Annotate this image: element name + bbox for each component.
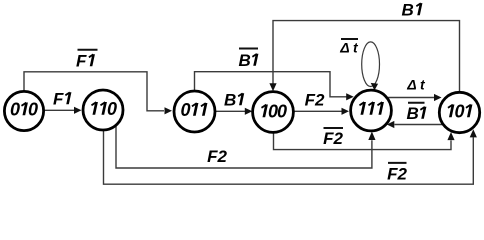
state 111 <box>351 90 392 131</box>
label /B1 right <box>407 103 426 123</box>
wire F2: 100 to 111 <box>293 108 349 115</box>
state 101 <box>439 92 479 132</box>
label /F2 a <box>323 128 343 148</box>
svg-text:Δ t: Δ t <box>339 40 359 56</box>
label /F2 b <box>387 163 407 184</box>
self-loop /dt on 111 <box>362 42 380 91</box>
wire F1: 010 to 110 <box>44 107 82 114</box>
svg-text:0: 0 <box>28 100 38 120</box>
wire /F1: 010 top to 011 left <box>24 72 172 115</box>
svg-text:B: B <box>407 104 419 123</box>
svg-text:F2: F2 <box>207 147 227 166</box>
svg-text:0: 0 <box>454 102 464 122</box>
wire F2: 110 bottom to 111 bottom <box>116 125 376 168</box>
label F1 <box>53 90 70 109</box>
state 011 <box>174 91 215 132</box>
label /delta-t <box>339 39 359 56</box>
svg-text:0: 0 <box>277 102 287 122</box>
label /B1 top <box>239 49 259 71</box>
label /F1 <box>76 50 98 71</box>
svg-text:F: F <box>53 90 64 109</box>
label B1 mid <box>224 91 243 110</box>
state 100 <box>253 92 294 133</box>
svg-text:F2: F2 <box>323 129 343 148</box>
wire B1: 011 to 100 <box>215 108 252 115</box>
wire /B1: 011 top to 111 upper-left <box>195 72 354 101</box>
svg-text:F2: F2 <box>387 165 407 184</box>
svg-text:B: B <box>402 0 414 19</box>
wire B1: 101 top to 100 top <box>269 21 459 93</box>
svg-text:B: B <box>239 51 251 70</box>
svg-text:Δ t: Δ t <box>406 77 426 93</box>
state 110 <box>83 90 123 130</box>
wire /F2: 110 bottom to 101 bottom <box>104 129 477 184</box>
svg-text:0: 0 <box>10 100 20 120</box>
svg-text:B: B <box>224 91 236 110</box>
svg-text:F2: F2 <box>305 91 325 110</box>
svg-text:F: F <box>76 52 87 71</box>
state 010 <box>4 91 43 130</box>
wire /B1: 101 to 111 return <box>387 121 443 128</box>
wire dt: 111 to 101 <box>386 94 441 101</box>
svg-text:0: 0 <box>107 99 117 119</box>
label B1 top <box>402 0 422 19</box>
svg-text:0: 0 <box>180 100 190 120</box>
wire /F2: 100 bottom to 101 bottom <box>274 132 455 150</box>
